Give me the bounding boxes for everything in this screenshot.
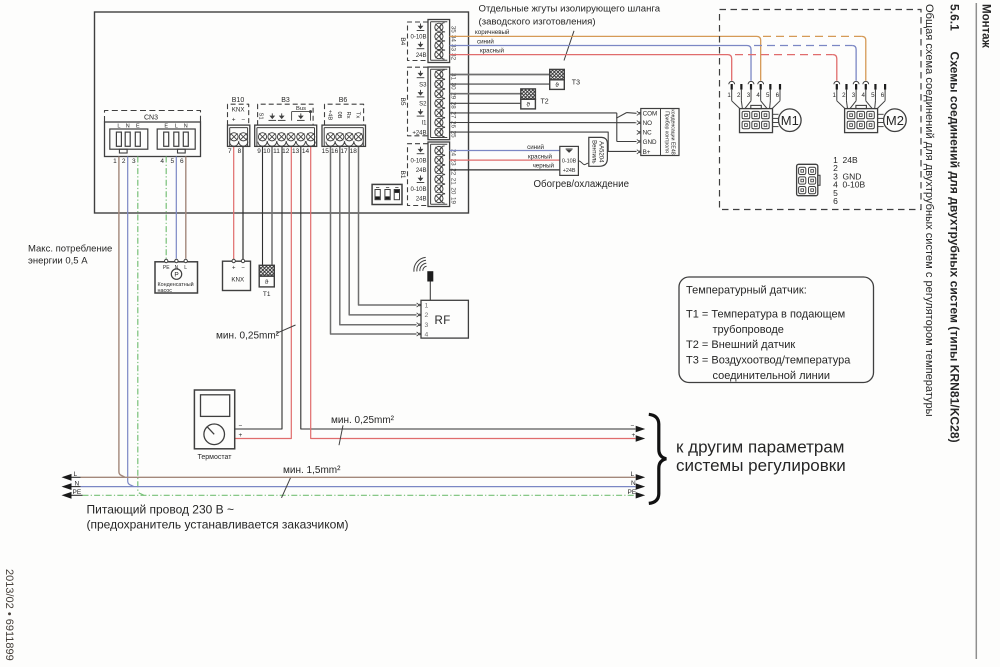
svg-text:24В: 24В	[843, 155, 858, 165]
svg-text:COM: COM	[643, 111, 658, 118]
svg-text:2: 2	[842, 92, 846, 99]
svg-text:11: 11	[273, 148, 280, 155]
svg-text:6: 6	[180, 158, 184, 165]
svg-text:N: N	[75, 480, 80, 487]
svg-text:P: P	[174, 272, 178, 279]
svg-text:CN3: CN3	[144, 114, 158, 121]
svg-text:+: +	[232, 266, 236, 272]
svg-text:АА5204: АА5204	[598, 141, 604, 163]
svg-text:4: 4	[425, 331, 429, 338]
svg-text:T2: T2	[541, 98, 549, 105]
svg-text:24B: 24B	[416, 168, 427, 174]
svg-text:B3: B3	[281, 97, 290, 104]
svg-text:PE: PE	[163, 265, 170, 271]
svg-text:2: 2	[737, 92, 741, 99]
svg-text:24B: 24B	[416, 53, 427, 59]
svg-text:4: 4	[756, 92, 760, 99]
svg-text:0-10B: 0-10B	[410, 35, 426, 41]
svg-text:E: E	[164, 124, 168, 130]
svg-text:Монтаж: Монтаж	[980, 4, 992, 49]
svg-text:3: 3	[852, 92, 856, 99]
svg-text:2: 2	[122, 158, 126, 165]
svg-text:18: 18	[350, 148, 358, 155]
svg-text:ϑ: ϑ	[265, 279, 269, 286]
svg-text:PE: PE	[73, 489, 82, 496]
svg-text:NC: NC	[643, 130, 653, 137]
svg-text:13: 13	[292, 148, 300, 155]
svg-text:3: 3	[747, 92, 751, 99]
svg-text:Термостат: Термостат	[198, 454, 233, 461]
svg-text:4: 4	[861, 92, 865, 99]
svg-text:L: L	[175, 124, 178, 130]
svg-text:к другим параметрам: к другим параметрам	[676, 438, 844, 457]
svg-text:17: 17	[340, 148, 348, 155]
svg-text:+: +	[239, 432, 243, 439]
svg-text:35: 35	[450, 26, 457, 34]
svg-text:(заводского изготовления): (заводского изготовления)	[479, 16, 596, 27]
svg-text:энергии 0,5 А: энергии 0,5 А	[28, 255, 88, 266]
svg-text:B4: B4	[399, 37, 406, 45]
svg-text:L: L	[117, 124, 120, 130]
svg-text:1: 1	[113, 158, 117, 165]
svg-text:Tx: Tx	[355, 112, 361, 119]
svg-text:16: 16	[331, 148, 339, 155]
svg-text:синий: синий	[527, 144, 544, 151]
svg-text:5: 5	[170, 158, 174, 165]
svg-text:мин. 1,5mm²: мин. 1,5mm²	[283, 465, 341, 476]
svg-text:M2: M2	[886, 113, 904, 128]
svg-text:I1: I1	[421, 121, 427, 127]
svg-text:PE: PE	[628, 489, 637, 496]
svg-text:6: 6	[776, 92, 780, 99]
svg-text:−: −	[241, 266, 245, 272]
svg-text:KNX: KNX	[232, 107, 245, 114]
svg-text:0-10B: 0-10B	[410, 158, 426, 164]
svg-text:Питающий провод 230 В ~: Питающий провод 230 В ~	[87, 502, 235, 516]
svg-text:B1: B1	[399, 171, 406, 179]
svg-text:−: −	[631, 422, 635, 429]
svg-text:B6: B6	[339, 97, 348, 104]
svg-text:ϑ: ϑ	[526, 101, 530, 108]
svg-text:Схемы соединений для двухтрубн: Схемы соединений для двухтрубных систем …	[948, 52, 962, 443]
svg-text:+24B: +24B	[563, 168, 576, 174]
svg-text:E: E	[136, 124, 140, 130]
svg-text:Температурный датчик:: Температурный датчик:	[686, 284, 807, 296]
svg-text:ϑ: ϑ	[555, 82, 559, 89]
svg-text:6: 6	[833, 196, 838, 206]
svg-text:20: 20	[450, 187, 457, 195]
svg-text:Обогрев/охлаждение: Обогрев/охлаждение	[534, 179, 629, 190]
svg-text:+4B: +4B	[327, 110, 333, 121]
svg-text:черный: черный	[533, 163, 555, 170]
svg-text:T1: T1	[263, 291, 271, 298]
svg-text:5: 5	[871, 92, 875, 99]
svg-text:2013/02 • 6911899: 2013/02 • 6911899	[3, 569, 15, 661]
svg-text:N: N	[184, 124, 188, 130]
svg-text:коричневый: коричневый	[475, 29, 510, 36]
svg-text:7: 7	[228, 148, 232, 155]
svg-text:19: 19	[450, 197, 457, 205]
svg-text:Конденсатный: Конденсатный	[158, 281, 194, 288]
svg-text:2: 2	[425, 312, 429, 319]
svg-text:0-10B: 0-10B	[562, 159, 577, 165]
svg-text:−: −	[239, 423, 243, 430]
svg-text:9: 9	[257, 148, 261, 155]
svg-text:12: 12	[282, 148, 290, 155]
svg-text:S2: S2	[419, 102, 427, 108]
svg-text:S3: S3	[419, 82, 427, 88]
svg-text:NO: NO	[643, 120, 653, 127]
svg-text:N: N	[175, 265, 179, 271]
svg-text:1: 1	[727, 92, 731, 99]
svg-text:T3 = Воздухоотвод/температура: T3 = Воздухоотвод/температура	[686, 355, 851, 367]
svg-text:мин. 0,25mm²: мин. 0,25mm²	[216, 330, 280, 341]
svg-text:L: L	[631, 471, 635, 478]
svg-text:T1 = Температура в подающем: T1 = Температура в подающем	[686, 308, 845, 320]
svg-text:B10: B10	[232, 97, 245, 104]
svg-text:3: 3	[425, 322, 429, 329]
svg-text:0-10В: 0-10В	[843, 180, 866, 190]
svg-text:соединительной линии: соединительной линии	[713, 370, 831, 382]
svg-text:GND: GND	[643, 139, 657, 146]
svg-text:синий: синий	[477, 38, 494, 45]
svg-text:14: 14	[302, 148, 310, 155]
svg-text:конденсации ЕЕ48: конденсации ЕЕ48	[670, 109, 676, 154]
svg-text:красный: красный	[528, 154, 553, 161]
svg-text:RF: RF	[435, 315, 451, 327]
svg-text:+: +	[632, 432, 636, 439]
svg-text:B+: B+	[643, 149, 651, 156]
svg-text:Прибор контроля: Прибор контроля	[663, 111, 669, 153]
svg-text:24B: 24B	[416, 197, 427, 203]
svg-text:системы регулировки: системы регулировки	[676, 456, 846, 475]
svg-text:L: L	[74, 471, 78, 478]
svg-text:8: 8	[238, 148, 242, 155]
svg-text:+24B: +24B	[412, 130, 426, 136]
svg-text:1: 1	[425, 302, 429, 309]
svg-text:KNX: KNX	[231, 277, 244, 284]
svg-text:Вентиль: Вентиль	[591, 140, 597, 163]
svg-text:10: 10	[263, 148, 271, 155]
svg-text:мин. 0,25mm²: мин. 0,25mm²	[331, 415, 395, 426]
svg-text:трубопроводе: трубопроводе	[713, 324, 784, 336]
svg-text:насос: насос	[158, 288, 173, 294]
svg-text:1: 1	[832, 92, 836, 99]
svg-text:4: 4	[160, 158, 164, 165]
svg-text:21: 21	[450, 178, 457, 186]
svg-text:T2 = Внешний датчик: T2 = Внешний датчик	[686, 339, 795, 351]
svg-text:(предохранитель устанавливаетс: (предохранитель устанавливается заказчик…	[87, 518, 349, 532]
svg-text:Rx: Rx	[345, 111, 351, 118]
svg-text:S1: S1	[257, 113, 263, 120]
svg-text:L: L	[184, 265, 187, 271]
svg-text:B5: B5	[399, 98, 406, 106]
svg-text:красный: красный	[480, 48, 505, 55]
svg-text:Общая схема соединений для дву: Общая схема соединений для двухтрубных с…	[923, 4, 935, 417]
svg-text:+: +	[232, 116, 236, 123]
svg-text:5: 5	[766, 92, 770, 99]
svg-text:0B: 0B	[336, 111, 342, 118]
svg-text:0-10B: 0-10B	[410, 187, 426, 193]
svg-text:Макс. потребление: Макс. потребление	[28, 243, 112, 254]
svg-text:15: 15	[322, 148, 330, 155]
svg-text:M1: M1	[781, 113, 799, 128]
svg-text:3: 3	[132, 158, 136, 165]
svg-text:−: −	[241, 116, 245, 123]
svg-text:N: N	[126, 124, 130, 130]
svg-text:6: 6	[881, 92, 885, 99]
svg-text:N: N	[631, 480, 636, 487]
svg-text:T3: T3	[572, 79, 580, 86]
svg-text:5.6.1: 5.6.1	[948, 4, 962, 31]
svg-text:Отдельные жгуты изолирующего ш: Отдельные жгуты изолирующего шланга	[479, 3, 661, 14]
